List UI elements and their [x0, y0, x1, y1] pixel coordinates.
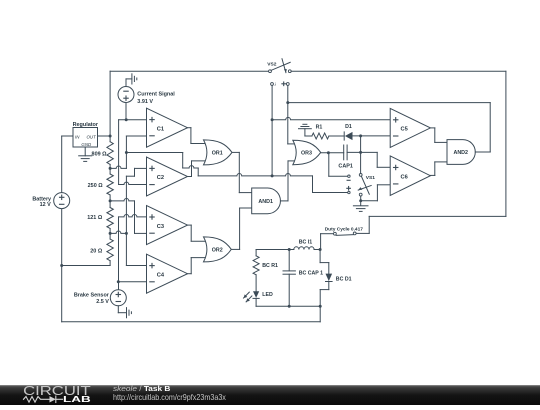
svg-text:2.5 V: 2.5 V [96, 299, 109, 305]
svg-text:C6: C6 [401, 174, 408, 180]
svg-text:http://circuitlab.com/cr9pfx23: http://circuitlab.com/cr9pfx23m3a3x [113, 393, 226, 402]
svg-text:OR1: OR1 [212, 151, 223, 157]
svg-text:250 Ω: 250 Ω [88, 183, 104, 189]
svg-text:Duty Cycle 0.417: Duty Cycle 0.417 [325, 227, 364, 233]
svg-text:OUT: OUT [86, 135, 96, 140]
svg-text:C4: C4 [157, 272, 165, 278]
svg-text:skeole / Task B: skeole / Task B [113, 384, 171, 393]
svg-text:BC I1: BC I1 [299, 239, 313, 245]
svg-text:OR3: OR3 [301, 151, 312, 157]
svg-text:C5: C5 [401, 127, 409, 133]
svg-text:VS1: VS1 [366, 175, 375, 181]
svg-text:BC CAP 1: BC CAP 1 [299, 271, 323, 277]
svg-text:Current Signal: Current Signal [137, 91, 175, 97]
svg-text:BC D1: BC D1 [336, 276, 352, 282]
svg-text:C3: C3 [157, 224, 164, 230]
svg-text:R1: R1 [316, 125, 323, 131]
svg-text:Brake Sensor: Brake Sensor [74, 293, 110, 299]
svg-text:AND2: AND2 [453, 150, 468, 156]
svg-text:Regulator: Regulator [73, 122, 99, 128]
svg-text:20 Ω: 20 Ω [90, 249, 103, 255]
svg-text:GND: GND [81, 142, 92, 147]
svg-text:LED: LED [262, 292, 273, 298]
svg-text:BC R1: BC R1 [262, 263, 278, 269]
svg-text:i: i [275, 82, 277, 88]
svg-text:C2: C2 [157, 175, 164, 181]
svg-text:D1: D1 [345, 124, 352, 130]
svg-text:LAB: LAB [63, 394, 91, 404]
svg-text:AND1: AND1 [258, 199, 273, 205]
svg-text:CAP1: CAP1 [338, 163, 353, 169]
svg-text:OR2: OR2 [212, 248, 223, 254]
svg-text:3.91 V: 3.91 V [137, 99, 153, 105]
svg-text:C1: C1 [157, 126, 165, 132]
svg-text:VS2: VS2 [267, 62, 276, 68]
svg-text:121 Ω: 121 Ω [87, 215, 103, 221]
svg-text:12 V: 12 V [40, 202, 52, 208]
svg-text:809 Ω: 809 Ω [92, 152, 108, 158]
